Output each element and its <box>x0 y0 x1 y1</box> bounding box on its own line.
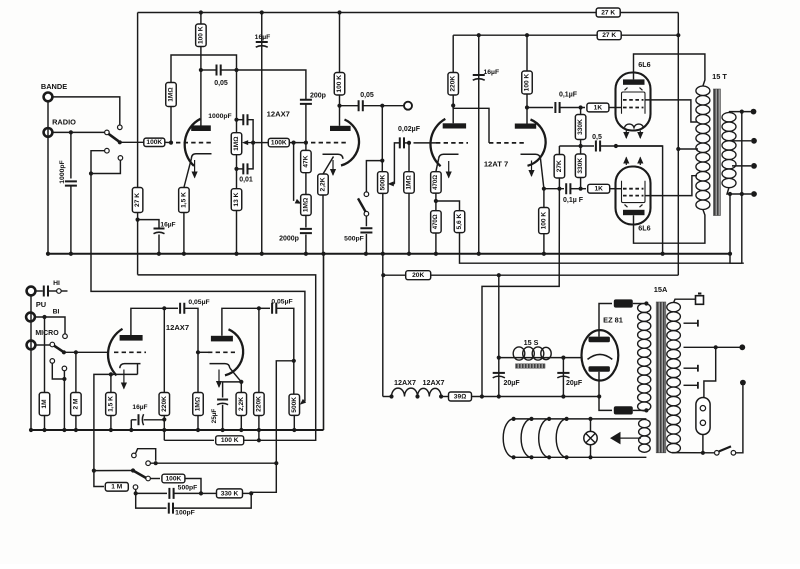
capacitor C 0,01 <box>243 163 247 174</box>
inductor PT LV <box>639 420 651 453</box>
wire tone line <box>150 462 276 464</box>
wire 500K wiper to 0,02 <box>392 183 395 185</box>
svg-text:12AX7: 12AX7 <box>267 110 290 119</box>
svg-text:1K: 1K <box>594 186 603 193</box>
capacitor C 0,05 a <box>217 65 221 76</box>
lamp pilot <box>584 431 597 444</box>
svg-text:27K: 27K <box>556 160 563 172</box>
inductor PT mains <box>667 302 681 452</box>
svg-text:220K: 220K <box>450 76 457 92</box>
wire heater chain <box>383 396 392 398</box>
node B+ top rail <box>138 12 596 14</box>
wire secondary bottom <box>727 187 751 194</box>
resistor R37 1M <box>105 483 128 492</box>
jack BANDE <box>44 93 53 102</box>
svg-text:12AX7: 12AX7 <box>166 323 189 332</box>
resistor R 27K top2 <box>597 31 621 40</box>
svg-text:25µF: 25µF <box>211 409 218 424</box>
wire B+ feed column <box>677 13 679 276</box>
svg-text:500pF: 500pF <box>178 485 198 492</box>
svg-text:470Ω: 470Ω <box>433 175 439 190</box>
resistor R11 100K <box>334 73 345 96</box>
capacitor 0,05uF c1 <box>164 307 178 309</box>
svg-text:100K: 100K <box>166 475 182 482</box>
capacitor 100pF tone <box>136 493 167 508</box>
inductor OT primary <box>696 86 710 210</box>
wire V4 screen tap <box>645 176 697 196</box>
tube V3 6L6 <box>616 73 651 131</box>
svg-text:1MΩ: 1MΩ <box>233 136 240 151</box>
resistor R24 1K <box>588 184 610 193</box>
mains taps <box>684 322 698 324</box>
capacitor 20uF b <box>562 358 564 397</box>
svg-text:16µF: 16µF <box>132 404 147 411</box>
wire second 27K line <box>453 34 598 36</box>
tube V2a 12AT7 envelope <box>430 119 445 166</box>
resistor R15 220K <box>448 73 459 96</box>
wire grid line tube V5 <box>64 351 109 353</box>
svg-text:27 K: 27 K <box>602 32 616 39</box>
wire branch to tone <box>276 361 294 463</box>
svg-text:5,6 K: 5,6 K <box>456 214 463 230</box>
fuse top <box>614 299 633 307</box>
resistor R3 100K grid1 <box>144 138 165 146</box>
wire NFB to tone switch <box>94 374 111 470</box>
tube V3 cathode arcs <box>625 124 644 127</box>
node 0,5 line <box>559 145 594 147</box>
wire cathode to 2,2K <box>323 157 334 175</box>
tube V2b 12AT7 envelope <box>528 120 546 166</box>
svg-text:12AT 7: 12AT 7 <box>484 160 508 169</box>
resistor 100K plate V2b <box>526 35 528 71</box>
svg-text:220K: 220K <box>255 396 262 412</box>
resistor R31 1M <box>193 393 204 416</box>
wire to 100K grid2 <box>253 142 268 144</box>
resistor 220K plate V2a <box>452 35 454 72</box>
tube V4 grid dashes <box>623 188 644 190</box>
wire DC link plate-grid <box>453 106 489 143</box>
tube V6 grid dashes <box>208 351 235 353</box>
tube V1a cathode <box>191 154 211 159</box>
tube V7 EZ81 <box>582 330 619 380</box>
tube V5 cathode <box>120 364 141 369</box>
tube V2a cathode <box>439 154 459 159</box>
wire rail to 27K column <box>137 13 139 188</box>
resistor 27K tail <box>558 146 560 155</box>
capacitor HI input <box>36 290 43 292</box>
switch tone contacts <box>132 453 137 458</box>
wire ground rail <box>48 253 730 255</box>
resistor 1M input <box>44 317 46 393</box>
svg-text:27 K: 27 K <box>601 9 615 16</box>
resistor 100K tone <box>150 478 160 480</box>
wire pivot from cathode NFB <box>94 470 133 472</box>
tube V5 plate <box>120 335 143 341</box>
svg-text:HI: HI <box>53 280 60 287</box>
resistor R20 1K <box>587 103 609 112</box>
resistor R34 500K <box>289 394 300 415</box>
svg-text:47K: 47K <box>302 155 309 167</box>
tube V4 plate <box>623 210 645 215</box>
svg-text:100 K: 100 K <box>336 75 343 93</box>
svg-text:20µF: 20µF <box>504 380 521 387</box>
switch mains blade <box>719 446 731 451</box>
tube V4 heater arrows <box>625 158 627 166</box>
wire V3 plate to OT <box>634 54 705 86</box>
capacitor C 1000pF fb <box>243 114 247 125</box>
svg-text:100 K: 100 K <box>197 26 204 44</box>
svg-text:EZ 81: EZ 81 <box>603 316 623 325</box>
resistor 1M grid V6 <box>197 352 199 392</box>
svg-text:1000pF: 1000pF <box>59 160 66 183</box>
capacitor C HI <box>44 286 48 297</box>
resistor R35 100K <box>216 436 244 445</box>
wire plate V1a <box>200 13 202 25</box>
jack MICRO <box>27 341 36 350</box>
heater bus rails <box>514 418 647 420</box>
wire secondary strap <box>741 112 743 194</box>
tube V6 plate <box>211 336 233 342</box>
capacitor 20uF a <box>498 358 500 397</box>
resistor R 27K top1 <box>596 8 620 17</box>
capacitor 0,1uF top <box>527 107 553 109</box>
inductor heater humps <box>392 388 418 396</box>
wire EZ81 plate top <box>599 304 612 337</box>
wire secondary top tap <box>729 112 751 113</box>
resistor R13 500K pot <box>378 172 389 194</box>
wire bottom ground rail <box>31 429 324 431</box>
svg-text:BANDE: BANDE <box>41 82 67 91</box>
wire cathode to 1,5K <box>184 159 192 188</box>
wire NFB from secondary <box>741 194 743 263</box>
svg-text:15 S: 15 S <box>524 338 539 347</box>
inductor OT secondary <box>722 113 736 188</box>
tube V1a 12AX7 envelope <box>185 119 201 166</box>
core 15T <box>713 89 720 216</box>
svg-text:200p: 200p <box>310 93 326 100</box>
node top rail junctions <box>199 10 203 14</box>
svg-text:1MΩ: 1MΩ <box>406 175 413 190</box>
resistor R8 100K grid2 <box>268 138 289 146</box>
resistor R19 5,6K <box>454 211 465 233</box>
svg-text:15A: 15A <box>654 285 668 294</box>
capacitor C 16uF c <box>473 75 485 80</box>
tube V5 grid dashes <box>114 351 146 353</box>
capacitor C 0,02uF <box>400 137 404 148</box>
resistor R33 220K <box>254 393 265 416</box>
tube V1b 12AX7 envelope <box>341 120 359 166</box>
svg-text:0,05: 0,05 <box>360 92 374 99</box>
wire 5,6K to NFB line <box>460 233 744 264</box>
tube V4 inner box <box>622 181 646 203</box>
wire cathode to 470 <box>436 159 439 172</box>
plug icon <box>696 296 704 305</box>
tube V3 heater arrows <box>625 131 627 139</box>
voltage selector oval <box>696 398 710 435</box>
capacitor C 16uF b <box>154 229 165 234</box>
wire to voltage selector <box>704 347 716 397</box>
wire bottom rail link <box>323 254 325 430</box>
resistor R14 1M <box>404 172 415 194</box>
wire mains tap live <box>684 346 740 348</box>
svg-text:1,5 K: 1,5 K <box>180 192 187 208</box>
svg-text:0,1µF: 0,1µF <box>559 92 578 99</box>
switch tone blade <box>131 468 135 472</box>
resistor 1M grid V2a <box>408 143 410 172</box>
resistor R2 1M grid <box>166 83 177 107</box>
tube V6 cathode <box>210 364 230 368</box>
svg-text:330K: 330K <box>577 158 584 174</box>
jack RADIO <box>44 128 53 137</box>
wire MICRO line <box>36 344 50 346</box>
wire jack sleeve column <box>30 296 32 430</box>
svg-text:12AX7: 12AX7 <box>423 378 445 387</box>
svg-text:220K: 220K <box>161 396 168 412</box>
tube V3 beam ticks <box>625 88 628 91</box>
wire secondary tap3 <box>732 165 751 167</box>
capacitor 16uF c <box>478 35 480 254</box>
jack PU <box>26 313 35 322</box>
resistor R28 2M <box>71 393 82 416</box>
svg-text:330 K: 330 K <box>221 490 239 497</box>
svg-text:27 K: 27 K <box>134 193 141 207</box>
svg-text:PU: PU <box>36 300 46 309</box>
capacitor C 0,05 d <box>272 303 276 314</box>
capacitor 2000p <box>305 215 307 227</box>
wire mains bottom <box>672 452 714 454</box>
wire selector to bottom <box>702 435 704 453</box>
resistor 1M tone <box>94 471 104 487</box>
wire B+ to 20K line <box>383 274 678 276</box>
tube V1b cathode <box>323 154 344 159</box>
svg-text:20K: 20K <box>412 272 424 279</box>
wire plate V6 up <box>222 308 259 336</box>
wire OT center tap <box>678 148 698 150</box>
wire grid loop V1 <box>171 55 237 83</box>
wire 27K foot <box>137 213 139 275</box>
capacitor C 16uF a <box>256 42 268 47</box>
tube V1a plate <box>191 125 211 131</box>
capacitor C 1000pF in <box>65 181 77 185</box>
svg-text:6L6: 6L6 <box>638 224 650 233</box>
wire grid dashes V2b <box>489 142 527 144</box>
capacitor 0,05uF c2 <box>259 307 270 309</box>
svg-text:1 M: 1 M <box>111 484 122 491</box>
svg-text:500K: 500K <box>291 397 298 413</box>
capacitor C 0,05 c <box>180 303 184 314</box>
resistor R23 27K <box>554 155 565 179</box>
svg-text:470Ω: 470Ω <box>433 214 439 229</box>
svg-text:6L6: 6L6 <box>638 60 650 69</box>
svg-text:0,05µF: 0,05µF <box>271 299 292 306</box>
capacitor C 200p <box>300 100 312 104</box>
tube V2a plate <box>443 123 466 128</box>
svg-text:39Ω: 39Ω <box>454 393 466 400</box>
terminal output circle <box>404 102 412 110</box>
resistor R26 20K <box>406 271 431 280</box>
wire selector pole2 down <box>91 174 305 402</box>
wire plate junction to 1M pot <box>236 70 238 133</box>
wire BANDE to selector <box>53 97 120 125</box>
tube V3 plate <box>623 79 645 84</box>
wire grid V6 <box>198 351 208 353</box>
svg-text:100 K: 100 K <box>540 212 547 230</box>
tube V2b cathode <box>521 154 541 159</box>
svg-text:1M: 1M <box>41 399 48 409</box>
tube V4 beam ticks <box>625 205 628 208</box>
tube V1b plate <box>330 126 351 131</box>
wire cathode node <box>137 364 139 375</box>
wire RADIO to selector <box>53 131 105 133</box>
wire cathode to 2,2K b <box>230 368 242 382</box>
resistor R30 220K <box>159 393 170 416</box>
svg-text:16µF: 16µF <box>255 34 271 41</box>
svg-text:500pF: 500pF <box>344 236 364 243</box>
svg-text:13 K: 13 K <box>233 192 240 206</box>
svg-text:100K: 100K <box>271 140 287 147</box>
capacitor C 0,1uF a <box>555 102 559 113</box>
capacitor C 0,1uF b <box>566 183 570 194</box>
resistor 100K splitter cathode <box>543 189 545 208</box>
wire B+ drop to 15S <box>498 275 500 357</box>
capacitor C 2000p <box>300 229 312 233</box>
tube V3 grid dashes <box>623 107 644 109</box>
svg-text:12AX7: 12AX7 <box>394 378 416 387</box>
wire tone node link <box>251 463 276 492</box>
resistor 220K plate a <box>163 308 165 392</box>
resistor R36 100K <box>162 474 185 483</box>
capacitor 0,1uF bottom <box>542 187 546 191</box>
wire to 500K pot <box>381 106 383 172</box>
svg-text:100 K: 100 K <box>221 437 239 444</box>
svg-text:BI: BI <box>53 309 60 316</box>
svg-text:2 M: 2 M <box>72 398 79 409</box>
svg-text:0,01: 0,01 <box>239 177 253 184</box>
wire EZ81 cathode out <box>563 357 581 359</box>
svg-text:MICRO: MICRO <box>35 330 59 337</box>
fuse bottom <box>614 406 633 414</box>
tube V2b plate <box>515 124 536 129</box>
resistor 2M <box>75 352 77 392</box>
wire V4 plate to OT <box>634 210 705 244</box>
wire pot wiper arrow <box>248 142 253 144</box>
resistor R27 1M <box>39 393 50 416</box>
resistor R9 47K <box>301 150 312 172</box>
resistor R5 27K <box>132 188 143 213</box>
tube V1b grid dashes <box>311 142 347 144</box>
resistor R6 1M pot <box>231 133 242 155</box>
svg-text:1MΩ: 1MΩ <box>195 396 202 411</box>
resistor R16 100K <box>522 71 533 94</box>
tube V5 12AX7 envelope <box>108 329 122 376</box>
jack HI <box>27 287 36 296</box>
wire V3 screen tap <box>645 100 697 122</box>
resistor R39 39ohm <box>449 392 472 401</box>
capacitor 1000pF fb <box>237 119 244 121</box>
capacitor C 500pF tone <box>169 488 173 499</box>
svg-text:2000p: 2000p <box>279 236 299 243</box>
resistor R25 100K <box>539 208 550 234</box>
wire 100K plate V1b <box>339 13 341 73</box>
wire grid dashes V2a <box>414 142 437 144</box>
wire 16uF rail decoupler <box>261 13 263 254</box>
switch mute <box>366 161 382 192</box>
capacitor C 100pF <box>169 503 173 514</box>
svg-text:100 K: 100 K <box>524 73 531 91</box>
capacitor 25uF <box>223 382 242 398</box>
wire 100K gnd leg <box>163 430 165 440</box>
svg-text:16µF: 16µF <box>160 222 175 229</box>
svg-text:0,02µF: 0,02µF <box>398 126 421 133</box>
heater filament arcs <box>503 419 513 457</box>
svg-text:16µF: 16µF <box>484 69 500 76</box>
svg-text:2,2K: 2,2K <box>238 397 245 411</box>
svg-text:0,05: 0,05 <box>214 80 228 87</box>
capacitor C 0,05 b <box>359 100 363 111</box>
svg-text:1,5 K: 1,5 K <box>107 396 114 412</box>
resistor R7 13K <box>231 189 242 211</box>
resistor R10 1M pot2 <box>301 195 312 216</box>
capacitor 500pF tone <box>134 491 138 495</box>
resistor R38 330K <box>217 489 243 498</box>
resistor 1,5K b <box>110 374 112 392</box>
tube V3 inner box <box>622 92 646 114</box>
wire mains top to plug <box>674 299 696 302</box>
resistor R21 330K <box>575 115 586 140</box>
inductor PT HV <box>638 304 651 411</box>
svg-text:1000pF: 1000pF <box>208 113 231 120</box>
svg-text:0,5: 0,5 <box>592 134 602 141</box>
resistor R1 100K <box>196 24 207 47</box>
core 15A <box>656 302 666 453</box>
resistor 220K plate b <box>258 308 260 392</box>
wire 1K to 6L6 grid <box>609 107 622 109</box>
wire plate V5 up <box>131 308 164 335</box>
resistor R29 1,5K <box>106 393 117 416</box>
svg-text:RADIO: RADIO <box>52 118 76 127</box>
capacitor C 500pF mute <box>360 228 372 232</box>
wire secondary gnd drop <box>729 194 731 254</box>
tube V1a grid dashes <box>176 142 212 144</box>
svg-text:1K: 1K <box>594 104 603 111</box>
resistor R17 470 <box>431 172 442 193</box>
wire wiper arrow 500K bottom <box>300 399 306 405</box>
wire 16uF foot branch <box>138 220 159 229</box>
wire EZ81 plate bottom <box>599 372 612 411</box>
wire 27K down feed <box>482 178 559 397</box>
capacitor 1000pF input <box>70 132 72 178</box>
tube V4 6L6 <box>616 167 651 225</box>
svg-text:0,05µF: 0,05µF <box>188 299 209 306</box>
wire cathode splitter down <box>541 159 544 189</box>
wire PU line <box>35 317 65 334</box>
svg-text:500K: 500K <box>379 174 386 190</box>
switch S1a blade <box>109 134 119 141</box>
resistor R12 2,2K <box>318 174 329 195</box>
wire grid V1a <box>120 141 144 143</box>
wire secondary tap2 <box>732 140 751 142</box>
capacitor 0,05 coupling b <box>340 105 359 107</box>
resistor 2,2K b <box>240 382 242 393</box>
wire jack ground column <box>47 102 49 254</box>
svg-text:20µF: 20µF <box>566 380 583 387</box>
tube V6 12AX7 envelope <box>225 329 243 375</box>
svg-text:2,2K: 2,2K <box>320 177 327 191</box>
resistor R4 1,5K <box>179 188 190 213</box>
resistor 5,6K <box>436 201 460 211</box>
resistor R32 2,2K <box>236 393 247 416</box>
resistor R22 330K <box>575 154 586 178</box>
